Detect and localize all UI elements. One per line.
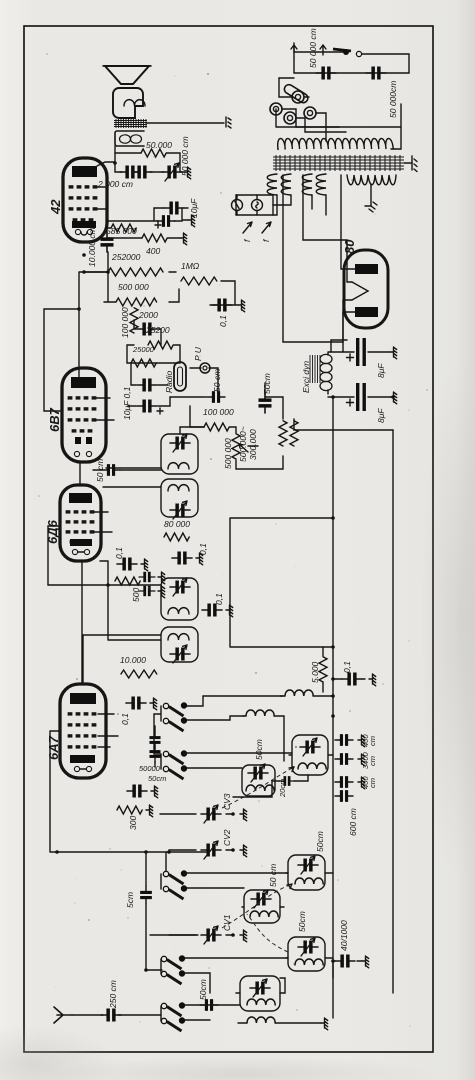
capacitor 0,1 AF: [137, 379, 157, 392]
osc coil b: [285, 690, 313, 696]
grid riser 6A7: [50, 731, 206, 852]
switch drops S3: [187, 873, 288, 888]
svg-text:250 cm: 250 cm: [108, 980, 118, 1009]
wire: [323, 647, 365, 692]
svg-text:50 cm: 50 cm: [268, 864, 278, 887]
voice coil box: [113, 88, 143, 118]
svg-text:2000: 2000: [138, 310, 158, 320]
rectifier plate leads: [283, 175, 355, 342]
resistor 10000: [121, 670, 157, 678]
wire 40/1000: [333, 961, 362, 978]
svg-text:50cm: 50cm: [262, 373, 272, 394]
tube 6V7 (det/AF): [62, 368, 106, 462]
S3 feed: [161, 852, 166, 889]
resistor 500: [115, 577, 140, 585]
cathode wires: [107, 208, 188, 221]
S2/S1 feeds: [154, 706, 161, 769]
transformer primary winding: [278, 139, 394, 150]
svg-text:500 000: 500 000: [118, 282, 149, 292]
resistor 300000: [290, 421, 298, 446]
switch drops S1: [187, 696, 283, 720]
tone R wires: [115, 153, 180, 172]
svg-text:80: 80: [342, 239, 357, 254]
svg-text:500 000: 500 000: [223, 438, 233, 469]
mains plug pin 1: [292, 91, 304, 103]
ground under 300: [146, 805, 153, 817]
wires detector: [84, 272, 393, 469]
svg-text:50cm: 50cm: [254, 739, 264, 760]
osc coil box L3b: [242, 765, 275, 796]
OT primary loop b: [131, 135, 142, 143]
svg-text:100 000: 100 000: [120, 307, 130, 338]
mains plug pin 2: [270, 103, 282, 115]
grid cap 10000cm: [101, 232, 114, 252]
cathode cap pair a: [139, 572, 155, 582]
42 electrode stubs: [97, 187, 107, 209]
svg-text:500: 500: [131, 588, 141, 602]
svg-text:Exci dyn: Exci dyn: [301, 361, 311, 393]
svg-text:500.000~: 500.000~: [238, 426, 248, 462]
RF coil box T3: [244, 890, 280, 923]
antenna lead: [72, 1014, 161, 1016]
capacitor 50000: [149, 746, 160, 763]
svg-text:25000: 25000: [132, 345, 155, 354]
switch drops S4: [185, 958, 288, 993]
band switch S1b: [163, 717, 187, 731]
ground: [158, 586, 165, 598]
dashed gang arrowhead: [287, 884, 292, 889]
ground 8uF output: [390, 392, 397, 404]
capacitor 0,1 screen: [172, 552, 192, 565]
L3b trimmer: [248, 764, 268, 782]
diode cap 50cm: [102, 464, 120, 476]
rail cap 50000cm: [316, 67, 336, 80]
primary top lead: [276, 109, 339, 150]
plate node line: [114, 146, 116, 172]
Radio switch pill: [174, 362, 186, 391]
filament wires to lamps: [273, 195, 326, 215]
plus sign: [347, 399, 354, 406]
ground bus: [392, 430, 394, 993]
padder cap 3400cm: [335, 753, 353, 765]
band switch S1a: [163, 702, 187, 716]
ground CV3: [240, 809, 247, 821]
HV center tap wire: [370, 184, 372, 206]
resistor 585000: [111, 224, 136, 232]
osc padder box L4: [292, 735, 328, 775]
coil ground lead: [238, 1022, 321, 1024]
OT secondary to chassis: [147, 122, 224, 124]
tone chain wire: [115, 171, 184, 173]
center tap ground: [365, 202, 377, 212]
resistor 500000~: [279, 421, 287, 446]
cathode cap pair: [157, 215, 175, 227]
svg-text:Radio: Radio: [164, 371, 174, 393]
band switch S4a: [161, 955, 185, 969]
svg-text:50 000cm: 50 000cm: [388, 81, 398, 118]
inter-tube link a: [81, 561, 83, 684]
svg-text:P U: P U: [193, 346, 203, 361]
T3 trimmer: [251, 890, 271, 908]
L4 trimmer: [300, 738, 320, 756]
IF2 trimmer: [170, 501, 190, 519]
T2 coil: [295, 878, 323, 884]
ground: [151, 786, 158, 798]
PU jack: [200, 363, 210, 373]
capacitor 0,1 plate bypass: [212, 299, 232, 312]
tone chain caps 2000cm b: [132, 166, 152, 179]
svg-text:0,1: 0,1: [198, 543, 208, 555]
cap 20cm: [280, 776, 295, 786]
capacitor 50cm: [207, 391, 225, 403]
ground: [358, 777, 365, 789]
tube 6D6 (IF amp): [60, 485, 101, 561]
svg-text:CV2: CV2: [222, 829, 232, 846]
svg-text:0,1: 0,1: [214, 593, 224, 605]
wire: [154, 726, 156, 767]
T3 coil: [250, 911, 278, 917]
IF2 coil: [168, 485, 189, 491]
B+ node to choke: [331, 340, 347, 352]
dashed gang line CV1-T2: [222, 884, 292, 928]
cap 5cm: [140, 886, 152, 904]
band switch S5a: [161, 1002, 185, 1016]
antenna coil box: [240, 976, 280, 1011]
band switch S3a: [163, 870, 187, 884]
pilot lamp rail a: [236, 194, 273, 196]
RF coil box T2: [288, 855, 325, 890]
grid hook 6D6: [48, 526, 108, 585]
grid lead 42: [107, 220, 111, 302]
resistor 252000 plate: [108, 268, 163, 276]
svg-text:50 000 cm: 50 000 cm: [308, 28, 318, 68]
tone resistor 50000: [141, 149, 166, 157]
svg-text:2 000 cm: 2 000 cm: [97, 179, 133, 189]
ground: [321, 1018, 328, 1030]
mains plug pin 3: [284, 112, 296, 124]
svg-text:8μF: 8μF: [376, 408, 386, 423]
antenna: [54, 1007, 72, 1023]
ground: [358, 754, 365, 766]
capacitor 0,1 at IF1s: [202, 604, 222, 617]
6A7 electrode stubs: [98, 714, 118, 747]
band switch S2a: [163, 750, 187, 764]
core ground: [412, 156, 417, 172]
svg-text:25200: 25200: [145, 325, 170, 335]
ground coil: [247, 1017, 275, 1023]
dashed gang line T4-T3: [247, 914, 288, 952]
svg-text:5.000: 5.000: [310, 661, 320, 683]
filament winding a: [267, 174, 277, 195]
resistor 100000 AF: [204, 423, 229, 431]
svg-text:300: 300: [128, 816, 138, 830]
lamp junction wires: [236, 195, 273, 215]
HV secondary winding: [347, 175, 396, 185]
plus sign: [347, 354, 354, 361]
L3b coil: [246, 785, 274, 791]
svg-text:252000: 252000: [111, 252, 141, 262]
capacitor 0,1 6A7 cath: [127, 785, 147, 798]
ground CV2: [240, 845, 247, 857]
IF transformer 2 box: [161, 479, 198, 517]
IF2 plate lead: [103, 486, 161, 488]
capacitor 0,1 6A7 grid: [126, 697, 146, 710]
IF1s coil: [168, 608, 189, 614]
IF2s trimmer: [170, 434, 190, 452]
voice coil turns: [124, 100, 145, 106]
ground: [362, 956, 369, 968]
ground: [358, 735, 365, 747]
svg-text:50 000 cm: 50 000 cm: [180, 136, 190, 176]
plus: [155, 222, 161, 228]
svg-text:10.000: 10.000: [120, 655, 146, 665]
cap 40/1000: [335, 955, 355, 968]
svg-text:50cm: 50cm: [198, 979, 208, 1000]
variable cap CV3: [201, 805, 221, 823]
ground: [150, 698, 157, 710]
svg-text:6А7: 6А7: [46, 735, 61, 760]
pilot lamp B: [252, 200, 263, 211]
IF1s trimmer: [170, 578, 190, 596]
ground: [141, 559, 148, 571]
variable cap CV2: [201, 841, 221, 859]
svg-text:50cm: 50cm: [315, 831, 325, 852]
svg-text:0,1: 0,1: [114, 547, 124, 559]
6V7 electrode stubs: [96, 398, 114, 420]
svg-text:10μF: 10μF: [189, 198, 199, 218]
IF1 plate lead: [83, 635, 161, 682]
IF transformer 1 secondary box: [161, 578, 198, 620]
padder cap 400cm b: [335, 776, 353, 788]
svg-text:50000: 50000: [139, 764, 161, 773]
L4 coil: [298, 763, 326, 769]
svg-text:50cm: 50cm: [297, 911, 307, 932]
band switch S2b: [163, 765, 187, 779]
inter-tube link b: [79, 462, 81, 485]
antenna to S5: [160, 1006, 162, 1021]
rail cap 50000cm lower: [366, 67, 386, 80]
filament tap arrow f2: [262, 222, 271, 233]
switch drops S2: [187, 753, 292, 768]
svg-text:1МΩ: 1МΩ: [181, 261, 200, 271]
6D6 electrode stubs: [94, 512, 112, 532]
capacitor 0,1 cathode 6D6: [117, 558, 137, 571]
band switch S3b: [163, 885, 187, 899]
OT primary loop a: [120, 135, 131, 143]
choke Exci dyn core: [310, 355, 320, 383]
filter cap 8uF output: [333, 383, 390, 411]
5cm cap link: [146, 852, 162, 970]
band switch S4b: [161, 970, 185, 984]
filament winding c: [302, 174, 312, 195]
svg-text:50 cm: 50 cm: [212, 369, 222, 392]
resistor 252000 diode load: [148, 341, 173, 349]
tube 6A7 (converter): [60, 684, 106, 778]
ground: [226, 605, 233, 617]
plate lead 42: [97, 162, 115, 166]
capacitor 10uF: [137, 400, 157, 413]
core ground lead: [404, 162, 412, 164]
fuse holder: [283, 83, 310, 104]
antenna trimmer: [250, 979, 270, 997]
padder cap 600cm: [335, 790, 353, 802]
tube 80 (rectifier): [344, 250, 388, 328]
svg-text:100 000: 100 000: [203, 407, 234, 417]
svg-text:6Д6: 6Д6: [45, 519, 60, 544]
IF1 trimmer: [170, 645, 190, 663]
ground: [238, 300, 245, 312]
T4 coil: [295, 959, 323, 965]
plug wiring: [279, 78, 346, 141]
antenna coil: [247, 999, 275, 1005]
ground 400: [180, 233, 187, 245]
ground CV1: [240, 930, 247, 942]
svg-text:600 cm: 600 cm: [348, 808, 358, 836]
IF transformer 1 box: [161, 627, 198, 662]
osc coil a: [246, 710, 274, 716]
cap 50cm ant: [200, 999, 218, 1011]
filament tap arrow f: [243, 222, 252, 233]
volume pot 500000: [232, 434, 240, 459]
resistor 400 wires: [107, 237, 180, 239]
T4 trimmer: [298, 938, 318, 956]
svg-text:300.000: 300.000: [248, 429, 258, 460]
tube 42 (output): [63, 158, 107, 242]
antenna cap 250cm: [101, 1009, 121, 1022]
padder cap 400cm: [335, 734, 353, 746]
svg-text:10μF 0,1: 10μF 0,1: [122, 386, 132, 420]
S4 feed: [150, 935, 198, 974]
chassis tab: [226, 117, 231, 128]
speaker cone: [105, 66, 149, 84]
IF transformer 2 secondary box: [161, 434, 198, 474]
tone trimmer 50000cm: [162, 163, 182, 181]
IF2s coil: [168, 463, 189, 469]
power switch: [356, 51, 361, 56]
pilot lamp rail b: [236, 214, 273, 216]
resistor 500000: [116, 298, 157, 306]
capacitor 50cm b: [259, 393, 272, 413]
primary bottom lead: [339, 104, 401, 149]
dashed gang line CV3-L4: [222, 767, 294, 808]
svg-text:0,1: 0,1: [120, 713, 130, 725]
IF2s diode lead: [106, 467, 161, 469]
plate lead 6V7: [79, 272, 108, 377]
band switch S5b: [161, 1017, 185, 1031]
speaker cone mouth: [103, 65, 151, 67]
resistor 1M: [181, 277, 217, 285]
capacitor 0,1: [342, 673, 362, 686]
svg-text:400: 400: [146, 246, 160, 256]
variable cap CV1: [201, 926, 221, 944]
cathode cap 10uF: [164, 202, 184, 215]
svg-text:8μF: 8μF: [376, 363, 386, 378]
ground: [196, 553, 203, 565]
T2 trimmer: [298, 856, 318, 874]
choke Exci dyn winding: [320, 354, 332, 390]
RF coil box T4: [288, 937, 325, 971]
ground tone: [184, 167, 191, 179]
scan specks: [38, 53, 428, 1027]
filament winding b: [281, 174, 291, 195]
osc coil links: [160, 696, 333, 993]
resistor 100000: [130, 308, 138, 333]
svg-text:42: 42: [48, 199, 63, 215]
svg-text:50.000: 50.000: [146, 140, 172, 150]
svg-text:0,1: 0,1: [342, 661, 352, 673]
svg-text:50cm: 50cm: [148, 774, 166, 783]
svg-text:10.000 cm: 10.000 cm: [87, 227, 97, 267]
mains rail: [294, 72, 409, 74]
pot arrow: [239, 444, 248, 452]
ground cathode: [188, 215, 195, 227]
pilot lamp A: [232, 200, 243, 211]
choke leads: [328, 352, 333, 397]
resistor 5000: [319, 657, 327, 682]
IF1 coil: [168, 634, 189, 640]
dashed gang arrowhead: [289, 767, 294, 772]
filament winding d: [316, 174, 326, 195]
plus: [157, 408, 163, 414]
capacitor 2000cm: [137, 323, 157, 336]
B+ bus: [332, 397, 334, 1018]
grid hook 6V7: [44, 309, 79, 411]
mains plug pin 4: [304, 107, 316, 119]
det chain lead: [180, 427, 204, 434]
svg-text:40/1000: 40/1000: [339, 920, 349, 951]
resistor 80000: [164, 533, 189, 541]
ground: [158, 572, 165, 584]
svg-text:5cm: 5cm: [125, 892, 135, 908]
tone chain caps 2000cm a: [120, 166, 140, 179]
capacitor 50cm: [149, 732, 160, 749]
diode cap wires: [93, 469, 161, 471]
switch drops S5: [185, 1005, 240, 1020]
AVC line: [100, 561, 161, 640]
antenna stub arrows: [291, 45, 326, 58]
filter cap 8uF input: [331, 338, 390, 366]
screen feed riser: [230, 518, 333, 647]
svg-text:0,1: 0,1: [218, 315, 228, 327]
rectifier filament leads: [303, 175, 368, 352]
cathode cap pair b: [139, 586, 155, 596]
ground: [369, 674, 376, 686]
resistor 400: [142, 234, 167, 242]
scan shading: [0, 1025, 120, 1080]
svg-text:80 000: 80 000: [164, 519, 190, 529]
output transformer primary frame: [115, 131, 144, 146]
resistor 300: [117, 806, 142, 814]
power transformer core: [273, 155, 404, 171]
output transformer core: [114, 119, 147, 128]
switch wiring: [294, 43, 409, 73]
ground 8uF input: [390, 347, 397, 359]
resistor 25000: [131, 359, 156, 367]
